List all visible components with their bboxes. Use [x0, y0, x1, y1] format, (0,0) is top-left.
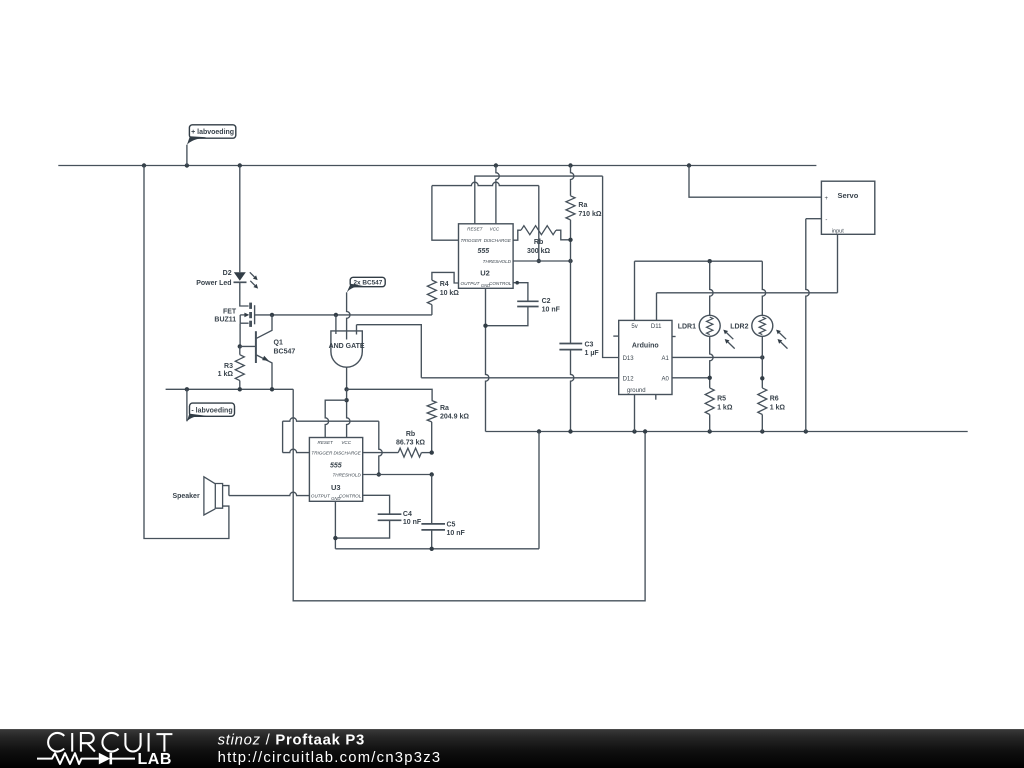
label R3 value	[218, 371, 234, 378]
label C5 value	[447, 530, 466, 537]
svg-text:Q1: Q1	[274, 340, 283, 347]
label C2 value	[542, 307, 561, 314]
label U2 VCC	[490, 227, 500, 232]
wire arduino A1	[672, 356, 762, 358]
wire speaker to U3 OUTPUT	[229, 492, 310, 495]
wire D2 to FET drain	[240, 282, 249, 306]
svg-text:Servo: Servo	[837, 191, 858, 200]
wire servo plus	[689, 166, 821, 198]
svg-text:300 kΩ: 300 kΩ	[527, 248, 551, 255]
svg-text:D13: D13	[623, 356, 635, 362]
wire FET source down to base node	[239, 323, 241, 346]
resistor R5	[705, 388, 714, 432]
wire arduino D11 up	[656, 293, 658, 321]
svg-text:U2: U2	[480, 269, 490, 278]
label R3	[224, 363, 233, 370]
photoresistor LDR1	[699, 261, 735, 388]
label R5	[717, 395, 726, 402]
label R4	[440, 281, 449, 288]
label Ra 204 value	[440, 413, 469, 420]
node R3 bottom junction	[238, 387, 242, 391]
label A1	[661, 356, 669, 362]
node bottom C5 junction	[430, 547, 434, 551]
label R6	[770, 395, 779, 402]
node rail servo-minus junction	[804, 429, 808, 433]
label BUZ11	[214, 317, 236, 324]
node U3 thresh-Ra junction	[430, 472, 434, 476]
node junction Servo + branch	[687, 163, 691, 167]
wire -labvoeding bus	[166, 388, 294, 390]
label Speaker	[172, 493, 200, 500]
resistor Ra 204.9k	[427, 401, 436, 453]
svg-text:Speaker: Speaker	[172, 493, 200, 500]
svg-text:LDR1: LDR1	[678, 323, 696, 330]
wire U2 THRESHOLD pin	[513, 260, 570, 262]
label R4 value	[440, 290, 460, 297]
svg-text:DISCHARGE: DISCHARGE	[333, 451, 361, 456]
label U3 OUTPUT	[311, 494, 331, 499]
label U2 name	[480, 269, 490, 278]
node C2-GND junction	[483, 324, 487, 328]
label D13	[623, 356, 635, 362]
resistor Rb 300k	[513, 226, 570, 241]
label servo input	[832, 228, 844, 234]
svg-text:Rb: Rb	[534, 239, 543, 246]
label U2 THRESHOLD	[483, 259, 512, 264]
wire servo input pin	[837, 234, 839, 292]
svg-text:Rb: Rb	[406, 431, 415, 438]
svg-text:BC547: BC547	[274, 349, 296, 356]
node 5v LDR1 junction	[708, 259, 712, 263]
svg-text:R6: R6	[770, 395, 779, 402]
node U3 reset-vcc junction	[344, 398, 348, 402]
label FET	[223, 308, 237, 315]
svg-text:RESET: RESET	[467, 227, 484, 232]
node A1-LDR2 junction	[760, 355, 764, 359]
label Ra 710	[578, 202, 587, 209]
speaker SP1	[204, 477, 229, 515]
net flag + labvoeding	[187, 125, 236, 166]
wire U3 THRESHOLD pin	[363, 474, 432, 476]
svg-text:TRIGGER: TRIGGER	[461, 238, 483, 243]
logo LAB	[138, 751, 172, 768]
LED D2 Power Led	[234, 272, 259, 288]
label Ra 204	[440, 405, 449, 412]
label 5v	[631, 324, 637, 330]
label D11	[651, 324, 662, 330]
label U3 DISCHARGE	[333, 451, 361, 456]
label C2	[542, 298, 551, 305]
label U3 TRIGGER	[311, 451, 333, 456]
wire AND output down to U3 VCC	[347, 389, 350, 437]
net flag 2x BC547	[347, 277, 386, 339]
label U2 OUTPUT	[461, 281, 481, 286]
Arduino U5 box	[619, 320, 672, 394]
wire U3 TRIGGER link	[283, 418, 383, 475]
label A0	[661, 376, 669, 382]
svg-text:Ra: Ra	[578, 202, 587, 209]
svg-text:FET: FET	[223, 308, 237, 315]
label LDR1	[678, 323, 696, 330]
photoresistor LDR2	[752, 261, 788, 388]
label U2 GND	[481, 283, 490, 288]
svg-text:+: +	[824, 196, 828, 202]
node rail C5-link junction	[537, 429, 541, 433]
label Power Led	[196, 280, 231, 287]
Servo M1 box	[821, 181, 874, 234]
label R5 value	[717, 404, 733, 411]
label U2 CONTROL	[489, 281, 512, 286]
footer url	[218, 750, 442, 766]
node junction U2 VCC	[494, 163, 498, 167]
pin stub arduino bottom	[655, 395, 657, 400]
label U3 THRESHOLD	[332, 473, 361, 478]
op-amp U3 555 box	[309, 438, 362, 502]
wire U2 TRIGGER link	[432, 182, 539, 261]
label U3 555	[330, 462, 342, 469]
wire U2 RESET pin	[475, 176, 603, 224]
wire AND input3 from D12 net	[357, 325, 422, 378]
wire U3 RESET link	[325, 400, 346, 437]
svg-text:DISCHARGE: DISCHARGE	[484, 238, 512, 243]
label Q1	[274, 340, 283, 347]
wire D12 net	[421, 377, 618, 379]
svg-text:10 kΩ: 10 kΩ	[440, 290, 460, 297]
wire FET gate line	[255, 314, 432, 316]
wire U2 RESET to Arduino D13	[603, 176, 619, 357]
resistor Rb 86.73k	[363, 448, 432, 457]
label servo plus	[824, 196, 828, 202]
svg-text:http://circuitlab.com/cn3p3z3: http://circuitlab.com/cn3p3z3	[218, 750, 442, 766]
svg-text:10 nF: 10 nF	[403, 519, 422, 526]
svg-text:204.9 kΩ: 204.9 kΩ	[440, 413, 469, 420]
resistor R3	[235, 346, 244, 389]
transistor FET BUZ11 (MOSFET)	[240, 303, 254, 327]
resistor R4	[427, 272, 458, 315]
label U2 TRIGGER	[461, 238, 483, 243]
label Arduino	[632, 343, 659, 350]
label Servo	[837, 191, 858, 200]
net flag - labvoeding	[187, 389, 235, 421]
wire U3 GND down	[334, 501, 336, 549]
wire arduino ground down	[634, 395, 636, 432]
capacitor C5	[421, 524, 445, 549]
label U3 name	[331, 483, 341, 492]
svg-text:555: 555	[477, 248, 489, 255]
node AND output junction	[344, 387, 348, 391]
label D12	[623, 376, 635, 382]
wire arduino A0	[672, 377, 710, 379]
wire servo minus	[806, 219, 822, 432]
label U2 RESET	[467, 227, 484, 232]
svg-text:Arduino: Arduino	[632, 343, 659, 350]
svg-text:CONTROL: CONTROL	[339, 494, 362, 499]
wire servo input line	[657, 292, 838, 294]
svg-text:D12: D12	[623, 376, 635, 382]
svg-text:LDR2: LDR2	[730, 323, 748, 330]
node LDR2 lower dot	[760, 376, 764, 380]
svg-text:1 µF: 1 µF	[585, 350, 600, 357]
svg-text:C5: C5	[447, 522, 456, 529]
node Rb-Ra junction	[568, 238, 572, 242]
svg-text:R4: R4	[440, 281, 449, 288]
node rail C3 junction	[568, 429, 572, 433]
footer title	[218, 733, 365, 749]
capacitor C2	[486, 281, 539, 326]
svg-text:R5: R5	[717, 395, 726, 402]
node junction Ra branch	[568, 163, 572, 167]
wire U2 VCC pin	[496, 166, 499, 224]
wire U2 GND down	[486, 288, 489, 431]
svg-text:VCC: VCC	[341, 440, 351, 445]
capacitor C4	[335, 495, 401, 538]
node Q1 emitter junction	[270, 387, 274, 391]
svg-text:VCC: VCC	[490, 227, 500, 232]
node rail R6 junction	[760, 429, 764, 433]
node rail bottom-loop junction	[643, 429, 647, 433]
node minus flag junction	[185, 387, 189, 391]
label LDR2	[730, 323, 748, 330]
node A0-R5 junction	[708, 376, 712, 380]
label R6 value	[770, 404, 786, 411]
label servo minus	[825, 218, 827, 224]
transistor Q1 BC547	[256, 315, 272, 389]
svg-text:555: 555	[330, 462, 342, 469]
wire 5v distribution	[635, 260, 763, 262]
wire AND output to Ra	[347, 389, 433, 400]
svg-text:-: -	[825, 218, 827, 224]
node C4-GND junction	[333, 536, 337, 540]
svg-text:LAB: LAB	[138, 751, 172, 768]
resistor R6	[758, 388, 767, 432]
label U3 CONTROL	[339, 494, 362, 499]
svg-text:R3: R3	[224, 363, 233, 370]
wire bottom gnd line	[335, 548, 539, 550]
svg-text:ground: ground	[627, 388, 646, 394]
node rail R5 junction	[708, 429, 712, 433]
label BC547	[274, 349, 296, 356]
label C3 value	[585, 350, 600, 357]
node junction D2 branch	[238, 163, 242, 167]
label U3 VCC	[341, 440, 351, 445]
svg-text:D2: D2	[223, 270, 232, 277]
svg-text:C4: C4	[403, 511, 412, 518]
node junction +labvoeding flag	[185, 163, 189, 167]
svg-text:10 nF: 10 nF	[447, 530, 466, 537]
svg-text:+ labvoeding: + labvoeding	[191, 129, 234, 136]
op-amp U2 555 box	[459, 224, 514, 288]
wire top +labvoeding bus	[58, 165, 816, 167]
node Rb86-Ra junction	[430, 450, 434, 454]
label C4 value	[403, 519, 422, 526]
node Q1 collector junction	[270, 313, 274, 317]
footer bar	[0, 729, 1024, 768]
label AND GATE	[329, 343, 365, 350]
svg-text:TRIGGER: TRIGGER	[311, 451, 333, 456]
wire minus bus down long vertical	[293, 389, 645, 601]
svg-text:A1: A1	[661, 356, 669, 362]
svg-text:86.73 kΩ: 86.73 kΩ	[396, 439, 425, 446]
svg-text:5v: 5v	[631, 324, 637, 330]
label U3 RESET	[318, 440, 335, 445]
resistor Ra 710k	[566, 166, 575, 262]
svg-text:stinoz / Proftaak P3: stinoz / Proftaak P3	[218, 733, 365, 749]
CircuitLab logo CIRCUIT	[48, 733, 172, 752]
wire left rail	[144, 166, 229, 539]
label U2 DISCHARGE	[484, 238, 512, 243]
pin stub arduino left	[613, 335, 618, 337]
label C3	[585, 341, 594, 348]
svg-text:710 kΩ: 710 kΩ	[578, 211, 602, 218]
label U2 555	[477, 248, 489, 255]
label ground	[627, 388, 646, 394]
svg-text:Ra: Ra	[440, 405, 449, 412]
svg-text:1 kΩ: 1 kΩ	[717, 404, 733, 411]
svg-text:THRESHOLD: THRESHOLD	[332, 473, 361, 478]
label D2	[223, 270, 232, 277]
svg-text:2x BC547: 2x BC547	[354, 279, 383, 286]
label C4	[403, 511, 412, 518]
svg-text:10 nF: 10 nF	[542, 307, 561, 314]
node U2 trig-thresh junction	[537, 259, 541, 263]
label Rb 86 value	[396, 439, 425, 446]
node U3 trig-thresh junction	[377, 472, 381, 476]
svg-text:- labvoeding: - labvoeding	[191, 407, 232, 414]
svg-text:input: input	[832, 228, 844, 234]
label Rb 300	[534, 239, 543, 246]
node Q1 base junction	[238, 344, 242, 348]
wire arduino 5v up	[634, 261, 636, 320]
node U2 thresh-Ra junction	[568, 259, 572, 263]
wire rail link down	[538, 432, 540, 549]
svg-text:OUTPUT: OUTPUT	[311, 494, 331, 499]
svg-text:D11: D11	[651, 324, 662, 330]
label Rb 86	[406, 431, 415, 438]
AND gate U4	[331, 315, 362, 389]
svg-text:C3: C3	[585, 341, 594, 348]
wire Ra204 down to C5	[431, 475, 433, 524]
node junction left-rail/top-bus	[142, 163, 146, 167]
node rail arduino-ground junction	[632, 429, 636, 433]
label Rb 300 value	[527, 248, 551, 255]
wire top bus to D2	[239, 166, 241, 273]
pin stub arduino right	[672, 336, 676, 338]
svg-text:AND GATE: AND GATE	[329, 343, 365, 350]
svg-text:BUZ11: BUZ11	[214, 317, 236, 324]
svg-text:A0: A0	[661, 376, 669, 382]
svg-text:U3: U3	[331, 483, 341, 492]
svg-text:Power Led: Power Led	[196, 280, 231, 287]
capacitor C3	[559, 261, 582, 432]
label C5	[447, 522, 456, 529]
svg-text:1 kΩ: 1 kΩ	[770, 404, 786, 411]
svg-text:C2: C2	[542, 298, 551, 305]
wire mid ground rail	[486, 431, 968, 433]
label U3 GND	[331, 496, 340, 501]
svg-text:OUTPUT: OUTPUT	[461, 281, 481, 286]
label Ra 710 value	[578, 211, 602, 218]
svg-text:THRESHOLD: THRESHOLD	[483, 259, 512, 264]
svg-text:RESET: RESET	[318, 440, 335, 445]
svg-text:1 kΩ: 1 kΩ	[218, 371, 234, 378]
wire base	[240, 345, 256, 347]
logo resistor-diode glyph	[37, 753, 135, 765]
svg-text:CONTROL: CONTROL	[489, 281, 512, 286]
node AND input-1 junction	[334, 313, 338, 317]
